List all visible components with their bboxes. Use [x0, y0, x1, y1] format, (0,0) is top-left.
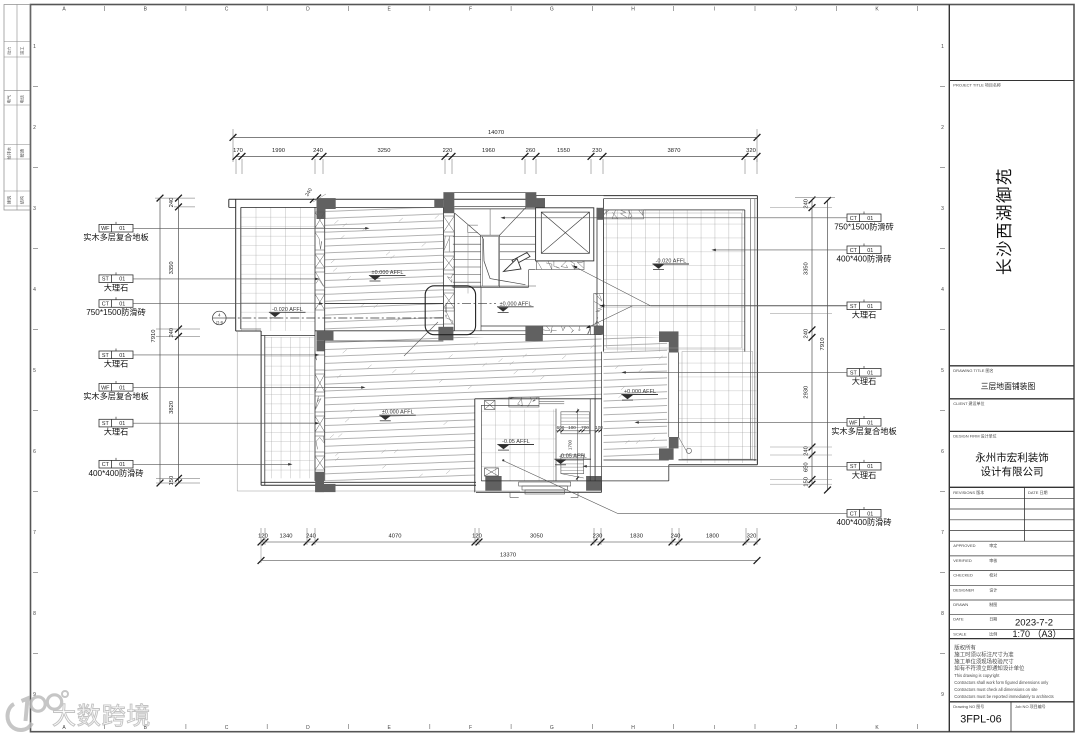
svg-text:长沙西湖御苑: 长沙西湖御苑: [995, 167, 1014, 275]
grid reference numbers left: [33, 44, 38, 698]
svg-text:01: 01: [119, 385, 125, 391]
tile grid bathroom: [481, 409, 556, 481]
level +0.000 right room: [621, 389, 658, 400]
svg-text:3: 3: [941, 206, 944, 212]
svg-text:260: 260: [526, 148, 536, 154]
svg-text:G: G: [550, 7, 554, 13]
column C1: [317, 198, 336, 209]
bottom overall dimension 13370: [258, 545, 761, 564]
svg-text:230: 230: [593, 534, 603, 540]
svg-text:比例: 比例: [989, 630, 997, 636]
svg-text:01: 01: [867, 370, 873, 376]
title block: [949, 5, 1074, 732]
svg-text:240: 240: [313, 148, 323, 154]
svg-text:01: 01: [119, 421, 125, 427]
svg-text:ST: ST: [850, 464, 858, 470]
svg-text:3FPL-06: 3FPL-06: [960, 714, 1001, 726]
svg-text:C: C: [225, 7, 229, 13]
svg-text:3: 3: [33, 206, 36, 212]
svg-text:给排水: 给排水: [6, 146, 13, 159]
svg-text:G: G: [550, 725, 554, 731]
balcony top-left stone cells: [604, 210, 644, 219]
svg-text:Contractors shall work form fi: Contractors shall work form figured dime…: [954, 680, 1049, 685]
svg-text:240: 240: [169, 328, 175, 338]
tag WF 实木多层复合地板 left: [83, 222, 369, 242]
leader bathroom tile to CT tag: [502, 459, 847, 513]
tag ST 大理石 right: [622, 366, 882, 386]
svg-text:220: 220: [443, 148, 453, 154]
svg-text:01: 01: [119, 462, 125, 468]
column C2: [443, 193, 454, 214]
right room door opening circle: [679, 437, 692, 453]
svg-text:21-B: 21-B: [216, 320, 224, 324]
svg-text:6: 6: [941, 449, 944, 455]
leader to detail callout: [404, 322, 438, 356]
svg-text:1990: 1990: [272, 148, 285, 154]
svg-text:2930: 2930: [804, 386, 810, 399]
bottom segment dimensions: [258, 528, 761, 545]
stair direction arrow: [512, 253, 530, 265]
svg-text:170: 170: [233, 148, 243, 154]
svg-text:暖通: 暖通: [19, 148, 26, 157]
right vertical dimensions: [770, 197, 835, 494]
section dash-dot line: [226, 317, 446, 319]
svg-text:大理石: 大理石: [104, 282, 129, 292]
svg-text:3350: 3350: [804, 262, 810, 275]
tag WF 实木多层复合地板 right: [635, 416, 897, 436]
tile grid terrace upper-left: [241, 207, 315, 330]
svg-text:01: 01: [867, 464, 873, 470]
svg-text:CT: CT: [850, 511, 858, 517]
svg-text:DATE 日期: DATE 日期: [1028, 489, 1047, 495]
svg-text:ST: ST: [850, 370, 858, 376]
tag CT 400*400防滑砖 right: [836, 507, 891, 527]
column C3: [525, 193, 536, 208]
svg-text:永州市宏利装饰: 永州市宏利装饰: [975, 451, 1049, 464]
svg-text:CT: CT: [850, 216, 858, 222]
svg-text:240: 240: [804, 199, 810, 209]
column C7: [525, 326, 542, 341]
svg-text:SCALE: SCALE: [953, 631, 966, 636]
svg-text:I: I: [714, 7, 715, 13]
tag ST 大理石 right: [583, 460, 882, 480]
svg-text:审定: 审定: [989, 542, 997, 548]
tag CT 750*1500防滑砖 left: [86, 297, 323, 317]
left vertical dimensions: [151, 195, 200, 487]
stone strip bathroom top: [509, 397, 539, 407]
svg-text:结构: 结构: [19, 196, 26, 204]
svg-text:1: 1: [33, 44, 36, 50]
svg-text:750*1500防滑砖: 750*1500防滑砖: [86, 307, 146, 317]
leader fork marble hall: [573, 266, 848, 329]
column C11: [669, 437, 679, 448]
interior walls: [261, 193, 678, 481]
svg-text:240: 240: [671, 534, 681, 540]
tag ST 大理石 left: [99, 349, 320, 369]
column C4: [659, 331, 679, 342]
svg-text:大理石: 大理石: [852, 470, 877, 480]
svg-text:240: 240: [306, 534, 316, 540]
svg-text:版权所有: 版权所有: [954, 644, 976, 652]
svg-text:F: F: [469, 725, 472, 731]
svg-text:01: 01: [867, 216, 873, 222]
svg-text:100: 100: [595, 425, 603, 430]
svg-text:400*400防滑砖: 400*400防滑砖: [836, 517, 891, 527]
svg-text:D: D: [306, 7, 310, 13]
column C5: [317, 331, 334, 341]
svg-text:240: 240: [169, 198, 175, 208]
svg-text:日期: 日期: [989, 616, 997, 622]
balcony inner boundary: [607, 213, 742, 348]
svg-text:WF: WF: [849, 420, 858, 426]
stone strip below hall: [543, 326, 591, 335]
svg-text:DRAWN: DRAWN: [953, 602, 968, 607]
svg-text:400*400防滑砖: 400*400防滑砖: [836, 253, 891, 263]
bathroom X-box top-left: [485, 400, 496, 409]
svg-text:校对: 校对: [989, 572, 997, 578]
svg-text:设计有限公司: 设计有限公司: [981, 465, 1044, 478]
small top-left dim 240: [304, 187, 326, 203]
svg-text:3050: 3050: [530, 534, 543, 540]
stair treads right flight: [490, 209, 536, 260]
svg-text:1800: 1800: [706, 534, 719, 540]
svg-text:650: 650: [804, 462, 810, 472]
svg-text:大理石: 大理石: [104, 427, 129, 437]
svg-text:WF: WF: [101, 226, 110, 232]
svg-text:Job NO 项目编号: Job NO 项目编号: [1015, 703, 1046, 709]
stone strip right wall of hall: [594, 293, 604, 326]
grid reference letters bottom: [62, 724, 917, 731]
column C10: [586, 476, 602, 491]
door swing bracket: [468, 225, 478, 232]
svg-text:实木多层复合地板: 实木多层复合地板: [83, 391, 149, 401]
stone threshold below elevator: [536, 261, 584, 270]
svg-text:三层地面铺装图: 三层地面铺装图: [981, 381, 1036, 391]
svg-text:制图: 制图: [989, 601, 997, 607]
svg-text:230: 230: [592, 148, 602, 154]
svg-text:4: 4: [941, 287, 944, 293]
svg-text:2: 2: [33, 125, 36, 131]
svg-text:01: 01: [867, 248, 873, 254]
svg-text:CT: CT: [102, 302, 110, 308]
tile grid balcony top-right: [604, 210, 745, 352]
svg-text:动力: 动力: [6, 47, 13, 55]
svg-text:CHECKED: CHECKED: [953, 573, 973, 578]
window wall cells stair side (x443 wall): [443, 216, 454, 324]
svg-text:This drawing is copyright: This drawing is copyright: [954, 673, 1000, 678]
svg-text:大理石: 大理石: [104, 358, 129, 368]
level -0.020 left terrace: [269, 307, 306, 318]
stair treads left flight: [453, 237, 481, 283]
svg-text:DESIGNER: DESIGNER: [953, 587, 974, 592]
svg-text:VERIFIED: VERIFIED: [953, 558, 972, 563]
outer walls: [229, 196, 758, 493]
svg-text:建筑: 建筑: [6, 195, 13, 204]
svg-text:实木多层复合地板: 实木多层复合地板: [83, 232, 149, 242]
level ±0.000 big room: [379, 410, 416, 421]
svg-text:D: D: [306, 725, 310, 731]
terrace bottom-right inner boundary: [682, 352, 753, 460]
elevator shaft: [536, 208, 594, 261]
void diagonal lines: [455, 213, 481, 236]
svg-text:120: 120: [258, 534, 268, 540]
svg-text:120: 120: [472, 534, 482, 540]
level -0.05 shower: [554, 454, 591, 465]
svg-text:Contractors must check all dim: Contractors must check all dimensions on…: [954, 687, 1038, 692]
svg-text:8: 8: [941, 611, 944, 617]
bathroom interior dims: [556, 409, 603, 481]
svg-text:5: 5: [941, 368, 944, 374]
svg-text:施工时须以标注尺寸为准: 施工时须以标注尺寸为准: [954, 650, 1014, 658]
svg-text:大理石: 大理石: [852, 309, 877, 319]
level -0.020 balcony: [652, 259, 689, 270]
svg-text:1830: 1830: [630, 534, 643, 540]
svg-text:DRAWING TITLE 图名: DRAWING TITLE 图名: [953, 367, 993, 373]
grid reference letters top: [62, 6, 917, 13]
svg-text:设计: 设计: [989, 586, 997, 592]
svg-text:PROJECT TITLE 项目名称: PROJECT TITLE 项目名称: [953, 82, 1001, 88]
wood floor hatch right room: [604, 337, 668, 460]
svg-text:320: 320: [747, 534, 757, 540]
column C6: [438, 327, 453, 341]
svg-text:5: 5: [33, 368, 36, 374]
svg-text:实木多层复合地板: 实木多层复合地板: [831, 426, 897, 436]
svg-text:CT: CT: [102, 462, 110, 468]
svg-text:7910: 7910: [151, 330, 157, 343]
tag CT 750*1500防滑砖 right: [501, 212, 894, 232]
svg-text:3870: 3870: [668, 148, 681, 154]
svg-text:电话: 电话: [19, 95, 26, 103]
column C1 leg: [317, 209, 326, 219]
entry steps below bathroom: [510, 482, 578, 498]
svg-text:7910: 7910: [820, 338, 826, 351]
section circle symbol: [213, 311, 227, 325]
column C8 foot: [315, 484, 335, 492]
column C3 arm: [536, 198, 545, 208]
stair break line: [482, 237, 525, 285]
bathroom walls: [475, 399, 602, 493]
bathroom X-box bottom-left: [485, 468, 499, 476]
column C4 leg: [669, 342, 679, 353]
tag CT 400*400防滑砖 right: [712, 244, 892, 264]
wood floor hatch big middle room: [325, 337, 602, 481]
svg-text:01: 01: [119, 353, 125, 359]
column C11 foot: [659, 448, 674, 459]
watermark logo 大数跨境: [8, 691, 152, 730]
svg-text:DATE: DATE: [953, 617, 964, 622]
svg-text:ST: ST: [102, 353, 110, 359]
svg-text:I: I: [714, 725, 715, 731]
tag ST 大理石 left: [99, 417, 320, 437]
svg-text:14070: 14070: [488, 130, 504, 136]
svg-text:01: 01: [867, 420, 873, 426]
wood floor hatch upper room: [325, 208, 444, 330]
svg-text:600: 600: [557, 425, 565, 430]
stair well rails: [453, 235, 536, 287]
svg-text:9: 9: [941, 692, 944, 698]
svg-text:2: 2: [941, 125, 944, 131]
svg-text:1550: 1550: [557, 148, 570, 154]
wall post hall bottom-right: [594, 326, 604, 335]
svg-text:审核: 审核: [989, 557, 997, 563]
svg-text:100: 100: [568, 425, 576, 430]
svg-text:7: 7: [33, 530, 36, 536]
svg-text:大理石: 大理石: [852, 376, 877, 386]
svg-text:8: 8: [33, 611, 36, 617]
level ±0.000 hall: [497, 301, 534, 312]
svg-text:如有不符须立即通知设计单位: 如有不符须立即通知设计单位: [954, 664, 1025, 672]
svg-text:2023-7-2: 2023-7-2: [1015, 618, 1053, 629]
svg-text:01: 01: [119, 277, 125, 283]
svg-text:01: 01: [867, 511, 873, 517]
svg-text:H: H: [631, 725, 635, 731]
signature sidebar table: [4, 5, 30, 211]
svg-text:3350: 3350: [169, 261, 175, 274]
tile grid terrace lower-left: [265, 337, 314, 478]
svg-text:H: H: [631, 7, 635, 13]
svg-text:3250: 3250: [378, 148, 391, 154]
svg-text:WF: WF: [101, 385, 110, 391]
svg-text:1:70 （A3）: 1:70 （A3）: [1012, 629, 1061, 639]
svg-text:400*400防滑砖: 400*400防滑砖: [88, 468, 143, 478]
svg-text:1340: 1340: [280, 534, 293, 540]
svg-text:150: 150: [804, 477, 810, 487]
svg-text:01: 01: [867, 304, 873, 310]
svg-text:施工单位须现场校验尺寸: 施工单位须现场校验尺寸: [954, 657, 1014, 665]
svg-text:ST: ST: [102, 421, 110, 427]
svg-text:CT: CT: [850, 248, 858, 254]
svg-text:ST: ST: [102, 277, 110, 283]
svg-text:4070: 4070: [389, 534, 402, 540]
svg-text:320: 320: [746, 148, 756, 154]
svg-text:C: C: [225, 725, 229, 731]
svg-text:F: F: [469, 7, 472, 13]
svg-text:1700: 1700: [568, 439, 573, 450]
svg-text:700: 700: [581, 425, 589, 430]
svg-text:APPROVED: APPROVED: [953, 543, 975, 548]
svg-text:大数跨境: 大数跨境: [52, 703, 151, 730]
column C5 leg: [317, 340, 325, 351]
svg-text:13370: 13370: [500, 553, 516, 559]
tag ST 大理石 right: [847, 300, 881, 320]
column C8 leg: [315, 472, 324, 492]
svg-text:01: 01: [119, 226, 125, 232]
revision cloud rounded rect: [425, 286, 475, 335]
wall post right of elevator: [597, 208, 604, 220]
column C2 arm: [434, 199, 443, 208]
svg-text:CLIENT 建设单位: CLIENT 建设单位: [953, 400, 984, 406]
svg-text:240: 240: [804, 446, 810, 456]
column C9: [485, 476, 501, 491]
svg-text:电气: 电气: [6, 94, 12, 103]
svg-text:01: 01: [119, 302, 125, 308]
svg-text:REVISIONS 版本: REVISIONS 版本: [953, 489, 984, 495]
svg-text:ST: ST: [850, 304, 858, 310]
svg-text:竣工: 竣工: [19, 47, 26, 55]
grid reference numbers right: [940, 44, 945, 698]
svg-text:DESIGN FIRM 设计单位: DESIGN FIRM 设计单位: [953, 432, 996, 438]
svg-text:6: 6: [33, 449, 36, 455]
tag ST 大理石 left: [99, 272, 320, 292]
tag CT 400*400防滑砖 left: [88, 458, 292, 478]
level ±0.000 upper room: [369, 270, 406, 281]
svg-text:7: 7: [941, 530, 944, 536]
svg-text:750*1500防滑砖: 750*1500防滑砖: [834, 221, 894, 231]
tag WF 实木多层复合地板 left: [83, 381, 365, 401]
wood plank joint accents: [330, 215, 663, 477]
svg-text:Drawing NO 图号: Drawing NO 图号: [953, 703, 984, 709]
svg-text:150: 150: [169, 476, 175, 486]
window wall cells left (x315 wall): [315, 212, 325, 470]
top segment dimensions: [233, 148, 761, 174]
bathroom fixtures: [561, 412, 590, 478]
svg-text:1: 1: [941, 44, 944, 50]
svg-text:4: 4: [33, 287, 36, 293]
svg-text:240: 240: [804, 329, 810, 339]
top overall dimension 14070: [230, 129, 761, 162]
svg-text:Contractors must be reported i: Contractors must be reported immediately…: [954, 694, 1053, 699]
svg-text:3820: 3820: [169, 401, 175, 414]
level -0.05 bathroom: [497, 439, 534, 450]
tile grid terrace bottom-right: [679, 352, 757, 463]
svg-text:1960: 1960: [482, 148, 495, 154]
